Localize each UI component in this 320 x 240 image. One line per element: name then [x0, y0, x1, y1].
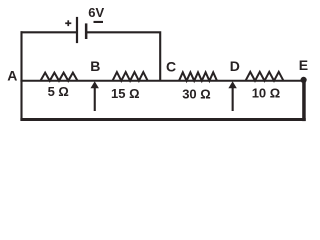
svg-text:30 Ω: 30 Ω — [182, 86, 211, 101]
svg-text:10 Ω: 10 Ω — [252, 85, 281, 100]
svg-text:B: B — [90, 58, 100, 74]
svg-text:C: C — [166, 58, 176, 74]
svg-text:D: D — [230, 58, 240, 74]
svg-text:E: E — [299, 57, 308, 73]
svg-text:6V: 6V — [88, 5, 104, 20]
svg-text:15 Ω: 15 Ω — [111, 86, 140, 101]
svg-text:A: A — [7, 68, 17, 84]
svg-text:5 Ω: 5 Ω — [48, 84, 69, 99]
